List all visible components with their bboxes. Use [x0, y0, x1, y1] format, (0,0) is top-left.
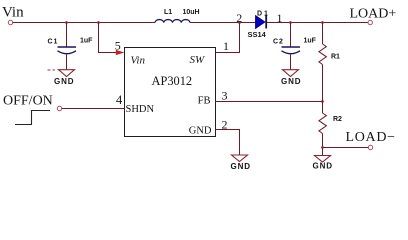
junction [289, 21, 292, 24]
ground [281, 70, 301, 86]
wire pin 4 [62, 108, 125, 110]
resistor R1 [319, 44, 327, 65]
svg-text:D1: D1 [257, 11, 270, 18]
node LOAD- terminal [368, 145, 372, 149]
svg-text:GND: GND [231, 162, 251, 171]
svg-text:3: 3 [222, 89, 228, 103]
svg-text:LOAD−: LOAD− [346, 130, 396, 145]
svg-text:C2: C2 [273, 39, 284, 46]
svg-text:L1: L1 [164, 9, 172, 16]
ground [231, 155, 251, 171]
wire [190, 22, 256, 24]
svg-text:GND: GND [281, 77, 301, 86]
svg-text:1: 1 [223, 39, 229, 53]
node Vin terminal [8, 20, 12, 24]
svg-text:R2: R2 [333, 116, 342, 123]
svg-text:Vin: Vin [131, 55, 146, 67]
node OFF/ON terminal [57, 106, 61, 110]
svg-text:4: 4 [116, 93, 123, 107]
svg-text:2: 2 [222, 118, 228, 132]
svg-text:SHDN: SHDN [126, 104, 155, 115]
svg-text:Vin: Vin [2, 5, 24, 21]
junction [97, 21, 100, 24]
svg-text:10uH: 10uH [183, 9, 200, 16]
ground [48, 70, 75, 86]
svg-text:GND: GND [54, 77, 74, 86]
wire [322, 23, 324, 45]
svg-text:5: 5 [115, 39, 121, 53]
svg-text:1uF: 1uF [304, 38, 317, 45]
node LOAD+ terminal [368, 20, 372, 24]
wire [322, 65, 324, 114]
junction [238, 21, 241, 24]
svg-text:LOAD+: LOAD+ [350, 7, 397, 22]
wire [290, 55, 292, 70]
ground [313, 156, 333, 171]
wire [323, 147, 369, 149]
svg-text:R1: R1 [331, 54, 340, 61]
svg-text:SS14: SS14 [248, 30, 267, 39]
svg-text:OFF/ON: OFF/ON [3, 94, 53, 109]
svg-text:GND: GND [313, 162, 333, 171]
wire [66, 23, 68, 48]
svg-text:1uF: 1uF [80, 38, 93, 45]
capacitor C2 [282, 47, 301, 54]
capacitor C1 [58, 47, 77, 54]
junction [321, 21, 324, 24]
svg-text:GND: GND [189, 126, 212, 137]
wire [290, 23, 292, 48]
junction [321, 100, 324, 103]
signal step symbol [15, 111, 50, 125]
IC U1 AP3012 [125, 48, 216, 137]
svg-text:AP3012: AP3012 [152, 74, 193, 88]
junction [65, 21, 68, 24]
diode D1 [256, 16, 267, 29]
wire [322, 134, 324, 156]
wire [13, 22, 155, 24]
resistor R2 [319, 113, 327, 134]
svg-text:SW: SW [190, 54, 206, 66]
inductor L1 [155, 20, 190, 23]
svg-text:C1: C1 [48, 39, 59, 46]
pin 5 input arrow [116, 50, 125, 55]
wire pin 5 [99, 23, 118, 53]
wire pin 3 FB [216, 101, 323, 103]
wire pin 2 GND [216, 130, 240, 156]
junction [321, 146, 324, 149]
wire [267, 22, 368, 24]
wire [66, 55, 68, 70]
wire pin 1 [216, 23, 240, 53]
svg-text:FB: FB [198, 96, 211, 107]
